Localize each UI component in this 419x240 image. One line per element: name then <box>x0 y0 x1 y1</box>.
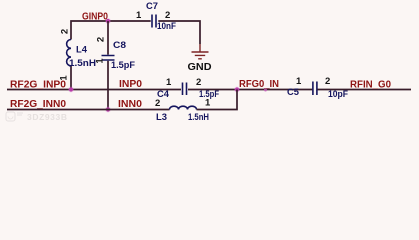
stray net-name anchor mark <box>264 89 267 92</box>
svg-text:INN0: INN0 <box>118 99 142 110</box>
svg-text:C8: C8 <box>113 40 126 50</box>
svg-text:RF2G_INP0: RF2G_INP0 <box>10 80 66 91</box>
inductor L3 arcs <box>170 106 197 109</box>
svg-text:10nF: 10nF <box>157 21 176 31</box>
wire row1 left segment <box>7 89 181 91</box>
junction dot C8 to row2 <box>105 107 111 113</box>
svg-text:2: 2 <box>325 76 330 87</box>
svg-text:1.5pF: 1.5pF <box>111 60 136 70</box>
wire row1 mid segment <box>188 89 312 91</box>
svg-text:1: 1 <box>136 10 142 21</box>
svg-text:1.5nH: 1.5nH <box>69 58 96 68</box>
wire C8 branch lower crossing row1 down to row2 <box>107 61 109 110</box>
svg-text:10pF: 10pF <box>328 89 348 99</box>
capacitor C5 plates <box>313 82 317 96</box>
svg-text:1: 1 <box>205 98 211 109</box>
svg-text:2: 2 <box>96 37 107 42</box>
ground stem <box>199 44 201 52</box>
capacitor C8 plates <box>102 56 115 61</box>
ground bars <box>192 52 209 59</box>
watermark <box>6 112 23 121</box>
svg-text:RF2G_INN0: RF2G_INN0 <box>10 99 66 110</box>
svg-text:2: 2 <box>196 77 201 88</box>
svg-text:RFG0_IN: RFG0_IN <box>239 79 279 90</box>
svg-text:C7: C7 <box>146 1 158 11</box>
capacitor C7 plates <box>152 15 156 28</box>
svg-text:2: 2 <box>165 10 170 21</box>
svg-text:L3: L3 <box>156 112 167 122</box>
svg-text:RFIN_G0: RFIN_G0 <box>350 79 391 90</box>
svg-text:L4: L4 <box>76 45 87 55</box>
wire row2 right segment and riser to row1 <box>197 90 238 110</box>
svg-text:3DZ933B: 3DZ933B <box>27 112 68 122</box>
wire top net GINP0 <box>71 21 151 90</box>
junction dot L4 to row1 <box>68 87 74 93</box>
svg-text:GND: GND <box>188 62 212 73</box>
svg-text:1: 1 <box>166 77 172 88</box>
svg-text:C5: C5 <box>287 87 299 97</box>
inductor L4 arcs <box>67 40 71 66</box>
svg-text:GINP0: GINP0 <box>82 12 108 23</box>
svg-text:1: 1 <box>296 76 302 87</box>
junction dot at GINP0/C8 <box>105 18 111 24</box>
svg-text:INP0: INP0 <box>119 79 142 90</box>
svg-text:2: 2 <box>60 29 71 34</box>
svg-text:1.5nH: 1.5nH <box>188 112 209 122</box>
svg-text:2: 2 <box>155 98 160 109</box>
wire from C7 pin2 to ground corner <box>158 21 200 44</box>
wire row2 left segment <box>7 109 170 111</box>
svg-text:1: 1 <box>95 58 106 64</box>
junction dot row2 riser to row1 <box>234 87 240 93</box>
wire C8 branch upper <box>107 21 109 55</box>
wire row1 right segment <box>318 89 412 91</box>
capacitor C4 plates <box>183 83 187 96</box>
